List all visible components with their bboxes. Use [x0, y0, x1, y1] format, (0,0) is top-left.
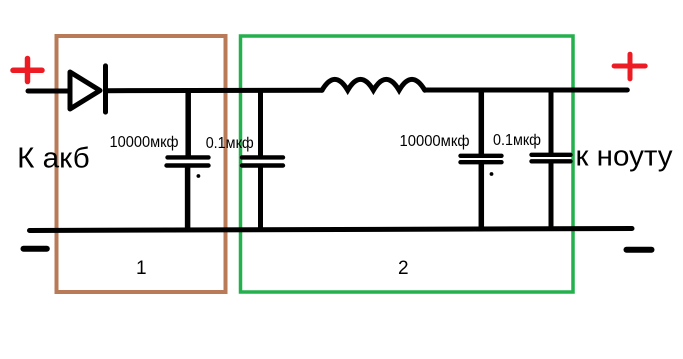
block 1 boundary box [57, 36, 226, 292]
minus terminal (laptop side) [627, 247, 652, 253]
capacitor C3 plates [461, 156, 502, 162]
minus terminal (battery side) [24, 246, 47, 252]
svg-text:к ноуту: к ноуту [576, 140, 674, 172]
capacitor C3 top lead [479, 90, 485, 156]
capacitor C4 plates [532, 155, 571, 162]
svg-text:1: 1 [136, 258, 147, 279]
capacitor C2 top lead [258, 90, 263, 156]
capacitor C2 bottom lead [258, 166, 263, 231]
wire: top rail from inductor to + output [425, 88, 628, 93]
diode D1 triangle (anode) [70, 72, 100, 109]
capacitor C1 plates [167, 157, 209, 165]
capacitor C4 top lead [549, 90, 554, 155]
svg-text:0.1мкф: 0.1мкф [206, 135, 254, 152]
wire: anode lead from + input [28, 89, 70, 94]
plus terminal (battery side) [13, 59, 42, 82]
svg-text:10000мкф: 10000мкф [400, 133, 470, 150]
capacitor C3 bottom lead [479, 163, 485, 230]
svg-text:0.1мкф: 0.1мкф [493, 132, 541, 149]
svg-text:2: 2 [398, 258, 409, 279]
capacitor C3 polarity dot [490, 172, 494, 176]
wire: bottom rail [30, 229, 633, 231]
diode D1 cathode bar [103, 66, 108, 112]
capacitor C1 polarity dot [197, 174, 201, 178]
capacitor C2 plates [242, 157, 283, 165]
capacitor C4 bottom lead [549, 162, 554, 230]
wire: top rail from diode to inductor [106, 88, 322, 94]
svg-text:10000мкф: 10000мкф [110, 134, 179, 151]
plus terminal (laptop side) [614, 54, 645, 79]
capacitor C1 bottom lead [185, 166, 191, 231]
capacitor C1 top lead [185, 91, 191, 157]
block 2 boundary box [241, 36, 574, 292]
inductor L1 (4 humps) [322, 79, 425, 90]
svg-text:К акб: К акб [17, 143, 90, 175]
